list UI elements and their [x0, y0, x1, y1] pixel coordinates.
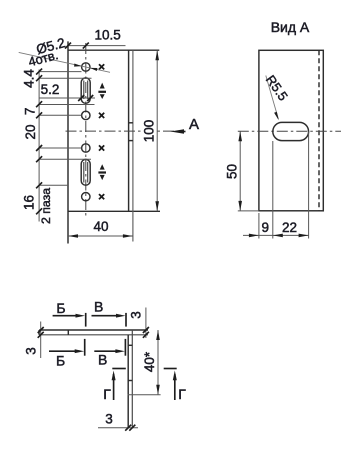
x mark hole 3 [99, 145, 104, 150]
label 4 otv [27, 47, 60, 69]
label 5.2 [41, 82, 60, 97]
section V lower arrow [94, 349, 125, 353]
side slot (stadium) [273, 122, 309, 140]
svg-text:Г: Г [103, 386, 111, 402]
svg-text:Б: Б [56, 353, 65, 369]
leader line for hole callout [19, 52, 110, 72]
plate bottom edge [68, 210, 160, 212]
R5.5 leader arrow [274, 112, 279, 121]
horizontal bar top line [39, 329, 148, 331]
vertical centerline through holes [85, 43, 87, 216]
bottom 3 dimension line [98, 427, 138, 429]
label 40* [142, 351, 157, 372]
svg-text:40*: 40* [142, 351, 157, 372]
right 3 ext line [145, 308, 147, 339]
dimension 50 line [239, 131, 241, 211]
svg-text:3: 3 [105, 412, 113, 427]
label 3 right [129, 311, 144, 319]
leader arrow left of hole 1 [74, 64, 82, 67]
svg-text:10.5: 10.5 [94, 28, 120, 43]
hole 2 [82, 111, 90, 119]
svg-text:В: В [98, 351, 107, 367]
ext line slot2 bottom [39, 184, 68, 186]
label 16 [22, 195, 37, 210]
dimension 40* arrows [156, 330, 160, 395]
x mark hole 1 [99, 64, 104, 69]
view arrow A [170, 129, 185, 133]
label 7 [23, 108, 38, 116]
label R5.5 [263, 72, 291, 103]
dimension 40* bottom extension [128, 394, 161, 396]
horizontal bar left end cap [38, 330, 40, 335]
side view outline [259, 50, 323, 211]
svg-text:А: А [189, 116, 199, 133]
hole 1 [82, 63, 90, 71]
ticks on left chain [36, 69, 42, 215]
svg-text:7: 7 [23, 108, 38, 116]
dimension 50 arrows [238, 131, 242, 211]
dimension 10.5 tick right [83, 43, 89, 49]
label A [189, 116, 199, 133]
horizontal bar divider [67, 330, 69, 335]
svg-text:В: В [94, 298, 103, 314]
section V lower label [98, 351, 107, 367]
bottom edge extension left [238, 210, 259, 212]
svg-text:5.2: 5.2 [41, 82, 60, 97]
section B upper cut line [85, 313, 87, 327]
label 4.4 [22, 69, 37, 88]
section G right label [178, 386, 186, 402]
label Ø5.2 [35, 35, 67, 57]
triangle marker slot 1 [98, 83, 106, 99]
dimension 100 line [156, 50, 158, 211]
arrows 22 [273, 234, 309, 238]
svg-text:Б: Б [56, 300, 65, 316]
horizontal bar bottom line [39, 334, 148, 336]
svg-text:100: 100 [141, 120, 156, 143]
dimension 40 arrows [68, 234, 133, 238]
section G right: top bar [164, 368, 177, 370]
section V upper cut line [125, 313, 127, 327]
svg-text:Г: Г [178, 386, 186, 402]
vertical bar divider upper [128, 344, 132, 346]
label 100 [141, 120, 156, 143]
left dimension chain vertical line [38, 70, 40, 222]
bend connector tick lower [129, 140, 133, 142]
label 22 [282, 220, 297, 235]
svg-text:3: 3 [24, 347, 39, 355]
label 100 background [143, 120, 157, 143]
hole 4 [82, 193, 90, 201]
svg-text:16: 16 [22, 195, 37, 210]
dimension 10.5 tick left [65, 43, 71, 49]
section B lower cut line [84, 339, 86, 356]
dimension 5.2 line [39, 97, 95, 99]
slot 2 outline [81, 159, 90, 185]
bend line inner [128, 50, 130, 211]
title Vid A [271, 19, 310, 35]
svg-text:50: 50 [225, 164, 240, 179]
R5.5 leader line [266, 76, 279, 120]
svg-text:20: 20 [23, 124, 38, 139]
label 9 [262, 220, 270, 235]
section V upper arrow [92, 314, 126, 318]
vertical bar right line [131, 330, 133, 428]
horizontal centerline [66, 130, 177, 132]
section G left arrow [112, 371, 116, 401]
dimension 10.5 line [68, 45, 126, 47]
section B lower: arrow [49, 349, 84, 353]
plate left edge [67, 41, 69, 243]
label 2 paza [39, 188, 53, 224]
slot 1 inner lines [84, 81, 88, 100]
tick slot1 left [78, 95, 84, 101]
svg-text:22: 22 [282, 220, 297, 235]
ext line slot1 bottom [39, 104, 94, 106]
vertical bar left line [127, 335, 129, 429]
ext line slot left [272, 141, 274, 239]
svg-text:Вид А: Вид А [271, 19, 310, 35]
dimension 40* line [157, 330, 159, 395]
bend connector tick upper [129, 122, 133, 124]
bend line outer (right edge of face) [132, 50, 134, 241]
svg-text:3: 3 [129, 311, 144, 319]
section B upper: label [56, 300, 65, 316]
ext line slot1 top [39, 77, 91, 79]
vertical bar divider lower [128, 380, 132, 382]
ext line slot2 top [39, 158, 91, 160]
svg-text:2 паза: 2 паза [39, 188, 53, 224]
hole 3 [82, 144, 90, 152]
svg-text:9: 9 [262, 220, 270, 235]
bottom 3 ticks [125, 425, 135, 431]
triangle marker slot 2 [98, 164, 106, 180]
x mark hole 4 [99, 194, 104, 199]
left 3 ext line [40, 322, 42, 359]
label 20 [23, 124, 38, 139]
dimension 100 arrows [155, 50, 159, 211]
plate top edge [68, 49, 159, 51]
right 3 ticks [143, 327, 149, 338]
section G left label [103, 386, 111, 402]
svg-text:4.4: 4.4 [22, 69, 37, 88]
ext line hole2 [39, 114, 81, 116]
arrow 9 outside [249, 234, 259, 238]
svg-text:40: 40 [93, 219, 108, 234]
section B upper arrow [53, 314, 85, 318]
section G left: top bar [112, 368, 126, 370]
bottom dimension line [243, 234, 309, 236]
x mark hole 2 [99, 113, 104, 118]
dimension 40 line [68, 235, 133, 237]
slot 1 outline [81, 78, 90, 103]
side view horizontal centerline [238, 130, 341, 132]
label 10.5 [94, 28, 120, 43]
ext line hole1 bottom [39, 71, 81, 73]
section B lower label [56, 353, 65, 369]
tick slot1 right [87, 95, 93, 101]
ext line slot right [308, 132, 310, 239]
side view dashed bend line [318, 50, 320, 211]
label 40 [93, 219, 108, 234]
section V upper: label [94, 298, 103, 314]
ext line 9 left (box edge) [258, 213, 260, 239]
section V lower cut line [124, 339, 126, 356]
slot 2 inner lines [84, 162, 88, 183]
leader arrow right of hole 1 [90, 68, 98, 71]
ext line hole3 [39, 147, 81, 149]
label 3 left [24, 347, 39, 355]
label 3 bottom [105, 412, 113, 427]
label 50 [225, 164, 240, 179]
left 3 ticks [38, 327, 44, 338]
section G right arrow [173, 371, 177, 401]
